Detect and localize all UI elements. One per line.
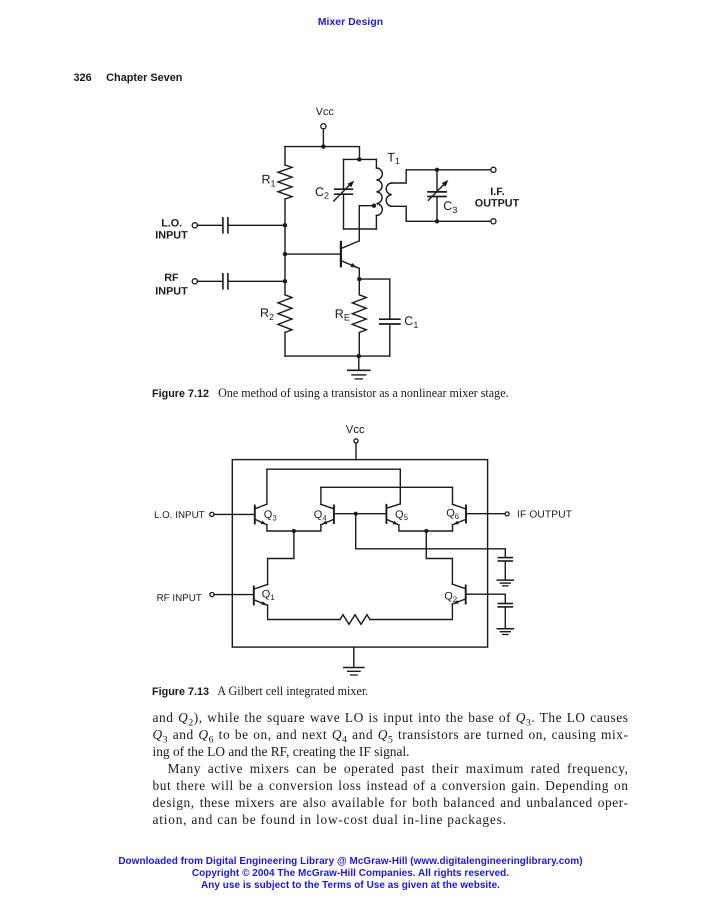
- wire ground pin (fig 7.13): [353, 647, 355, 667]
- svg-text:Vcc: Vcc: [346, 424, 365, 436]
- wire C2 branch lower: [343, 195, 345, 230]
- wire RE to bottom rail: [358, 333, 360, 357]
- wire Q1 emitter lead: [268, 605, 340, 619]
- svg-text:OUTPUT: OUTPUT: [475, 198, 520, 210]
- ground bypass 1: [497, 580, 513, 586]
- transistor Q (fig 7.12): [341, 241, 359, 269]
- wire tank bottom: [344, 228, 377, 230]
- svg-text:L.O.: L.O.: [161, 217, 182, 229]
- node Q3/Q4 emitter dot: [292, 529, 296, 533]
- capacitor C2 (variable): [334, 181, 354, 201]
- svg-text:R1: R1: [262, 173, 276, 189]
- node C3 top junction dot: [435, 168, 439, 172]
- body paragraphs: [153, 709, 629, 829]
- wire I.F. tank bottom rail: [406, 220, 491, 222]
- svg-text:RF: RF: [164, 272, 179, 284]
- svg-text:T1: T1: [387, 150, 400, 166]
- I.F. output bottom terminal: [491, 219, 496, 224]
- wire Q6 emitter lead: [452, 525, 454, 531]
- svg-text:Q4: Q4: [314, 509, 328, 522]
- wire emitter pair 2 to Q2 collector: [426, 531, 452, 584]
- svg-text:Q5: Q5: [395, 509, 409, 522]
- wire emitter node to C1: [359, 278, 390, 280]
- wire bottom rail: [285, 355, 390, 357]
- wire resistor to Q2 emitter: [370, 604, 452, 620]
- I.F. output top terminal: [491, 167, 496, 172]
- wire RF cap to node: [228, 280, 285, 282]
- wire coupling cap to node: [228, 224, 285, 226]
- capacitor bypass 2: [498, 594, 512, 628]
- node base junction dot: [283, 252, 287, 256]
- wire R1 top lead: [284, 147, 286, 165]
- wire R1 to R2: [284, 199, 286, 295]
- svg-text:L.O. INPUT: L.O. INPUT: [154, 510, 205, 521]
- wire L.O. terminal to coupling cap: [197, 224, 222, 226]
- wire Q3-Q5 collector tie: [267, 469, 400, 504]
- caption figure 7.13: [152, 684, 368, 699]
- node Vcc junction dot: [321, 144, 325, 148]
- svg-text:IF OUTPUT: IF OUTPUT: [517, 510, 572, 521]
- RF input terminal: [192, 279, 197, 284]
- wire RE top lead: [358, 279, 360, 295]
- svg-text:Q3: Q3: [264, 509, 278, 522]
- svg-text:Vcc: Vcc: [316, 106, 335, 118]
- wire Q3 collector riser: [266, 469, 268, 504]
- L.O. input terminal: [192, 223, 197, 228]
- wire Q6 base to IF output: [466, 513, 505, 515]
- wire C1 upper lead: [389, 279, 391, 319]
- transistor Q2: [452, 584, 465, 604]
- wire base node to transistor base: [285, 253, 341, 255]
- wire Q4 emitter lead: [294, 525, 321, 531]
- svg-text:RE: RE: [335, 307, 350, 323]
- ground (fig 7.12): [348, 370, 370, 379]
- transistor Q5: [386, 504, 400, 525]
- running head: Mixer Design: [0, 17, 701, 28]
- wire emitter lead: [358, 268, 360, 279]
- transistor Q6: [453, 504, 467, 524]
- svg-text:Q1: Q1: [262, 589, 275, 602]
- RF input terminal (fig 7.13): [210, 593, 214, 597]
- wire tap to collector: [359, 206, 374, 241]
- wire top rail: [285, 147, 360, 160]
- wire I.F. tank top rail: [406, 169, 491, 171]
- resistor RE: [352, 295, 366, 333]
- transistor Q3: [255, 504, 267, 525]
- wire Q2 base to bypass cap: [466, 593, 506, 595]
- node Q5/Q6 emitter dot: [424, 529, 428, 533]
- IF output terminal: [505, 512, 509, 516]
- wire ground stem (fig 7.12): [358, 356, 360, 370]
- wire Vcc pin: [355, 443, 357, 460]
- wire RF terminal to coupling cap: [197, 280, 222, 282]
- svg-text:INPUT: INPUT: [155, 286, 188, 298]
- node L.O. junction dot: [283, 223, 287, 227]
- transistor Q4: [321, 504, 334, 524]
- wire C3 upper lead: [436, 170, 438, 192]
- Vcc terminal (fig 7.12): [321, 124, 326, 129]
- ground (fig 7.13): [344, 668, 364, 676]
- node emitter junction dot: [357, 277, 361, 281]
- wire Q5 emitter lead: [399, 525, 453, 531]
- wire Vcc to top rail: [322, 129, 324, 147]
- wire C3 lower lead: [436, 197, 438, 222]
- svg-text:Q2: Q2: [444, 590, 457, 603]
- Vcc terminal (fig 7.13): [354, 439, 358, 443]
- capacitor RF coupling: [223, 274, 228, 289]
- wire R2 to bottom rail: [284, 333, 286, 357]
- label RF INPUT: [155, 272, 188, 297]
- capacitor bypass 1: [498, 549, 512, 580]
- wire Q4-Q6 collector tie: [321, 487, 453, 504]
- wire emitter pair 1 to Q1 collector: [268, 531, 294, 584]
- wire C2 branch upper: [343, 159, 345, 189]
- svg-text:RF INPUT: RF INPUT: [157, 593, 202, 604]
- resistor R2: [278, 295, 292, 333]
- wire tank top: [344, 158, 377, 160]
- IC package outline: [232, 460, 487, 647]
- capacitor L.O. coupling: [223, 218, 228, 233]
- caption figure 7.12: [152, 386, 509, 401]
- capacitor C1: [380, 319, 400, 324]
- svg-text:INPUT: INPUT: [155, 230, 188, 242]
- node collector tap dot: [372, 204, 376, 208]
- footer: [0, 856, 701, 892]
- node Q4/Q5 base dot: [354, 512, 358, 516]
- wire Q4 base to Q5 base: [334, 513, 387, 515]
- wire base tie to bypass cap: [356, 514, 506, 549]
- label I.F. OUTPUT: [475, 186, 520, 210]
- svg-text:C1: C1: [404, 314, 418, 330]
- node C3 bottom junction dot: [435, 219, 439, 223]
- svg-text:R2: R2: [260, 306, 274, 322]
- resistor R1: [278, 165, 292, 199]
- wire C1 lower lead: [389, 324, 391, 356]
- svg-text:Q6: Q6: [446, 507, 460, 520]
- L.O. input terminal (fig 7.13): [210, 512, 214, 516]
- wire L.O. to Q3 base: [214, 513, 254, 515]
- label L.O. INPUT: [155, 217, 188, 241]
- svg-text:C3: C3: [443, 199, 457, 215]
- wire Q4 collector riser: [320, 487, 322, 504]
- resistor emitter degeneration: [340, 615, 370, 625]
- folio: 326 Chapter Seven: [74, 72, 183, 84]
- transformer T1 primary winding: [376, 159, 382, 229]
- node tank top junction dot: [357, 157, 361, 161]
- wire RF to Q1 base: [214, 594, 253, 596]
- ground bypass 2: [497, 629, 513, 635]
- node RF junction dot: [283, 279, 287, 283]
- capacitor C3 (variable): [428, 180, 448, 200]
- node ground junction dot: [357, 354, 361, 358]
- svg-text:C2: C2: [315, 185, 329, 201]
- transistor Q1: [254, 584, 268, 605]
- transformer T1 secondary winding: [386, 170, 406, 222]
- svg-text:I.F.: I.F.: [490, 186, 504, 198]
- wire Q3 emitter lead: [267, 525, 294, 531]
